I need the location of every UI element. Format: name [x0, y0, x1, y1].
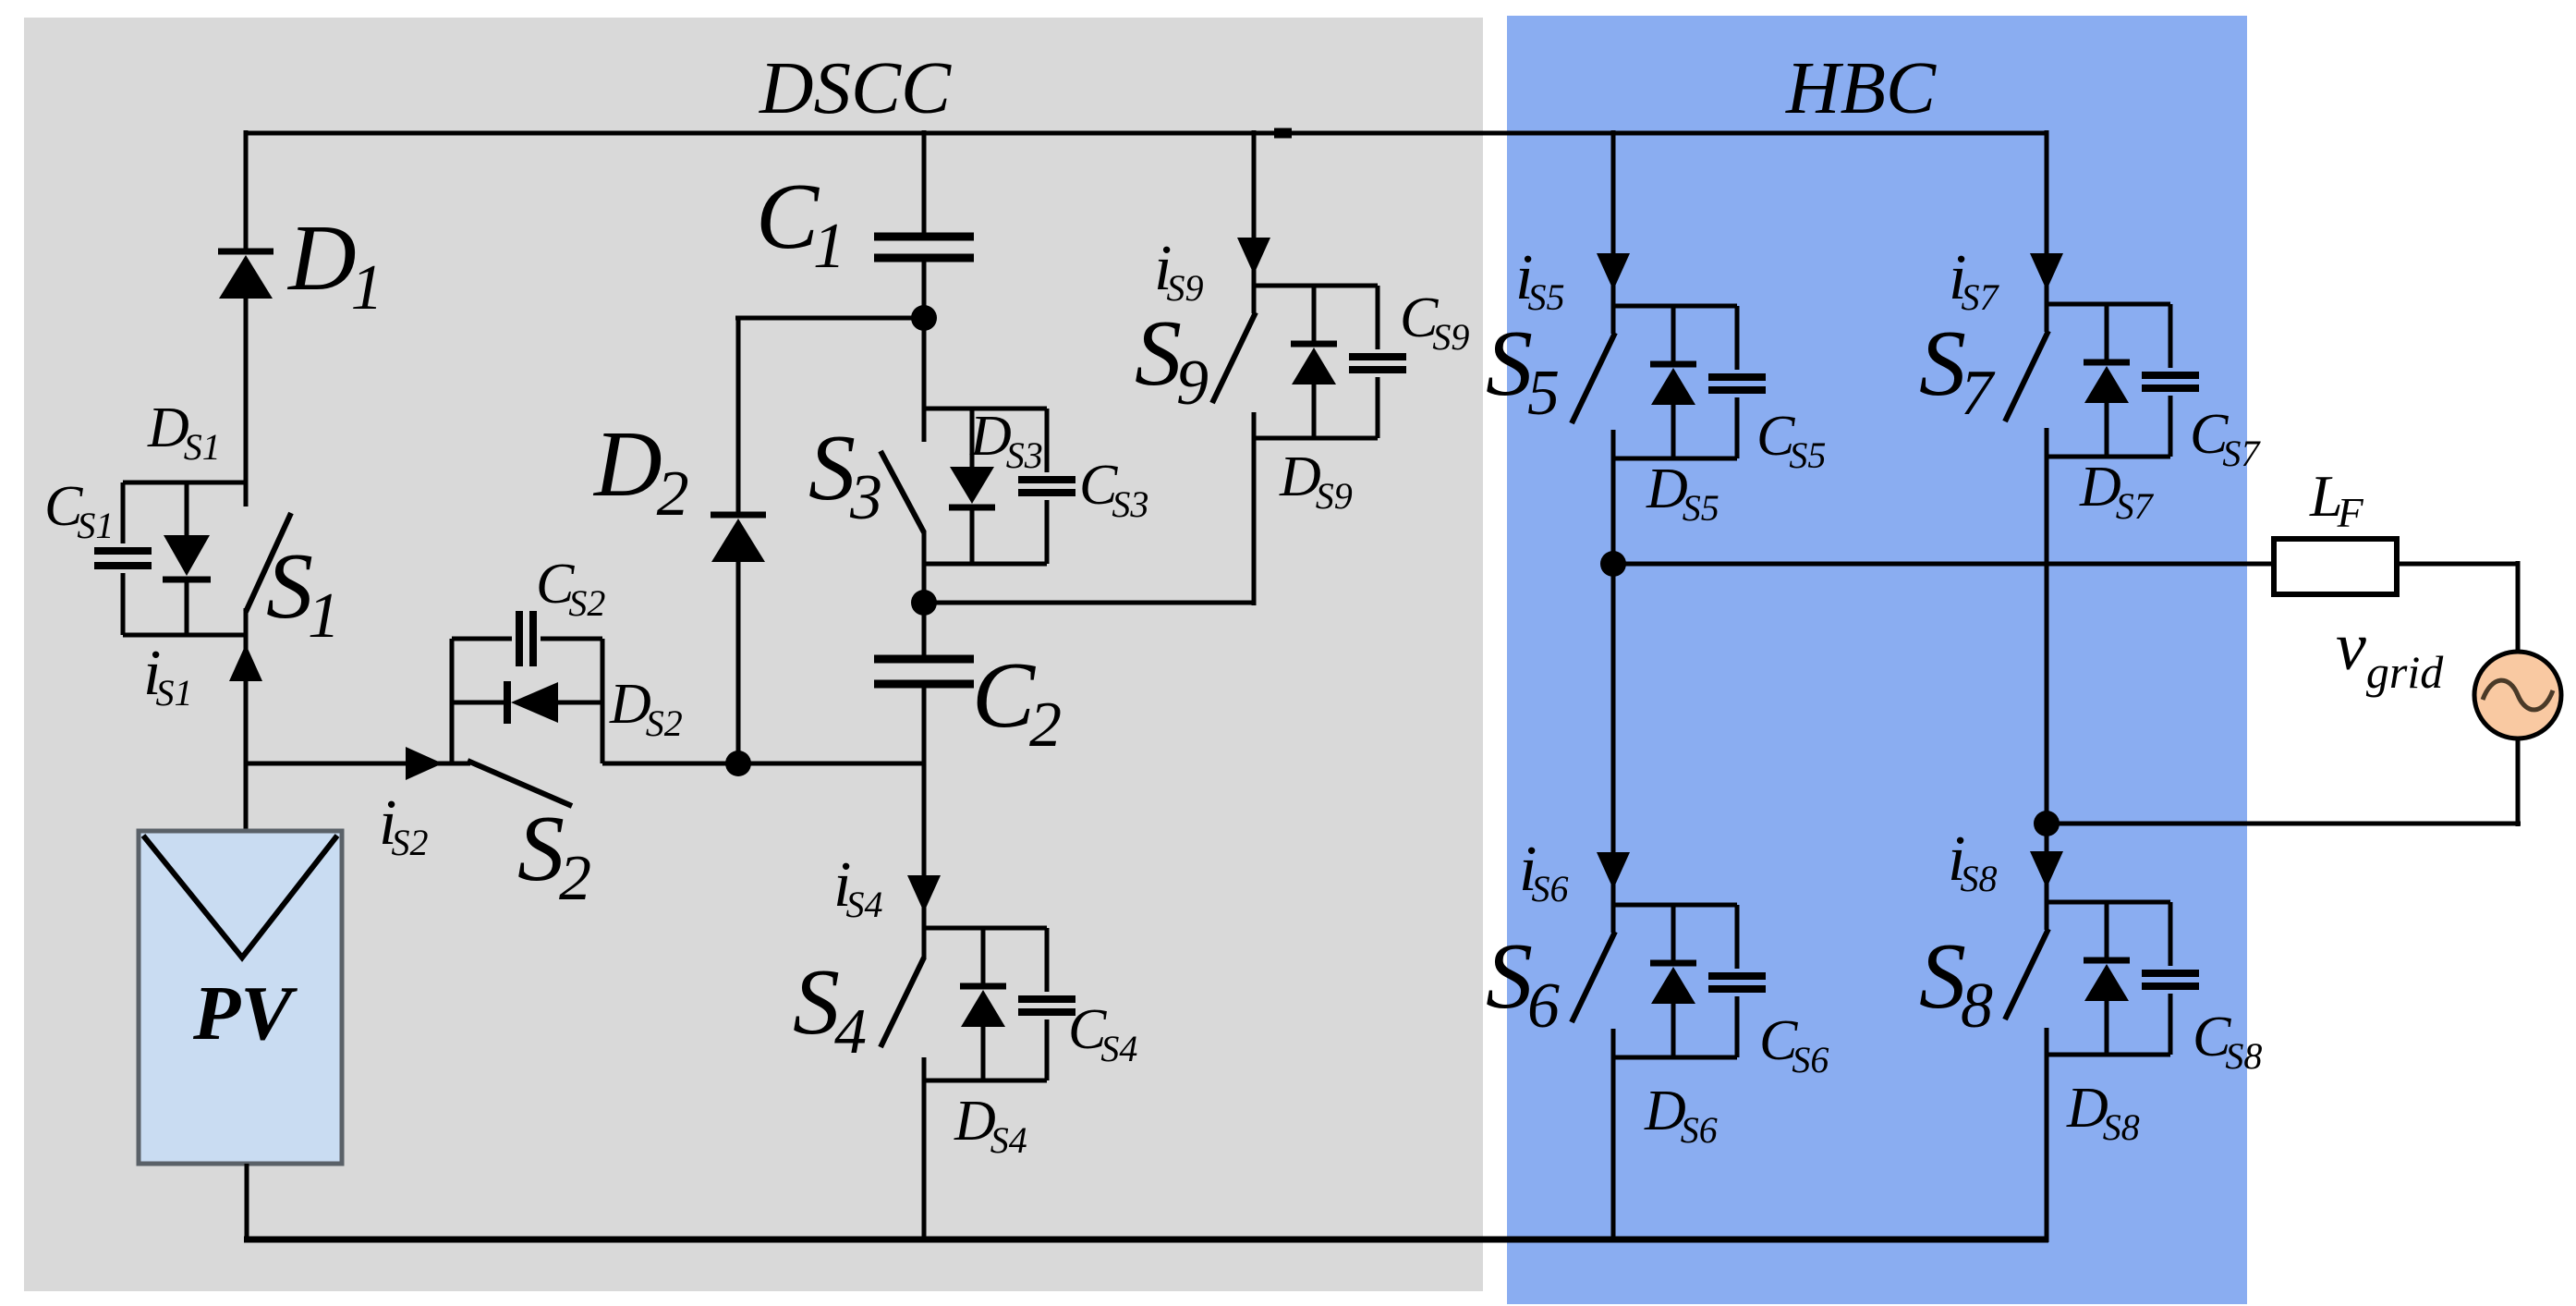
wire S7 upper	[2045, 130, 2049, 304]
label S6	[1486, 924, 1560, 1042]
diode DS1	[163, 482, 211, 635]
label iS5	[1515, 242, 1564, 318]
capacitor CS1	[94, 482, 152, 635]
label iS7	[1949, 242, 1999, 318]
capacitor CS2	[452, 611, 602, 666]
capacitor CS6	[1708, 905, 1766, 1057]
label DS8	[2066, 1077, 2140, 1148]
label vgrid	[2336, 609, 2444, 698]
label DS3	[969, 405, 1043, 476]
wire S6 upper	[1611, 564, 1616, 905]
wire C1 upper	[922, 130, 927, 237]
label DS2	[609, 673, 683, 744]
wire S4 lower	[922, 1057, 927, 1242]
wire C2 lower	[922, 684, 927, 959]
switch S9 blade	[1212, 312, 1256, 403]
label LF	[2309, 463, 2364, 536]
snubber box S7 rails	[2047, 304, 2170, 457]
label D1	[286, 206, 383, 323]
diode DS2	[452, 681, 602, 724]
switch S6 blade	[1572, 932, 1615, 1022]
PV source	[139, 831, 342, 1164]
current arrow iS1	[229, 644, 262, 681]
wire S1 to S2	[246, 762, 470, 766]
DSCC region background	[24, 18, 1483, 1291]
wire PV bottom	[245, 1164, 249, 1242]
wire S9 upper	[1252, 130, 1257, 286]
label HBC title	[1785, 46, 1937, 129]
current arrow iS7	[2030, 253, 2063, 290]
wire S3-S9 node link	[924, 601, 1254, 605]
label S4	[793, 950, 867, 1068]
label CS8	[2193, 1006, 2262, 1077]
wire S8 upper	[2045, 824, 2049, 902]
capacitor C1	[874, 237, 974, 258]
diode DS5	[1650, 306, 1696, 458]
label PV	[192, 970, 298, 1056]
wire D2 lower	[736, 562, 741, 763]
wire S6 upper contact stub	[1611, 905, 1616, 933]
label S2	[517, 797, 591, 914]
wire S1 lower	[244, 608, 249, 831]
snubber box S1 rails	[123, 482, 246, 635]
label DS5	[1646, 458, 1719, 529]
switch S4 blade	[881, 958, 924, 1047]
label C1	[756, 165, 845, 282]
current arrow iS6	[1597, 852, 1630, 889]
svg-text:PV: PV	[192, 970, 298, 1056]
wire S6 lower	[1611, 1029, 1616, 1242]
snubber box S2 verticals	[452, 639, 602, 763]
capacitor CS8	[2142, 902, 2199, 1055]
switch S5 blade	[1572, 333, 1615, 423]
label DSCC title	[759, 46, 952, 129]
label iS6	[1519, 834, 1568, 909]
capacitor C2	[874, 659, 974, 684]
current arrow iS5	[1597, 253, 1630, 290]
wire S5 upper	[1611, 130, 1616, 306]
diode D1	[218, 251, 273, 299]
label CS2	[536, 553, 605, 624]
label S1	[266, 534, 340, 652]
switch S7 blade	[2005, 331, 2048, 421]
label DS1	[147, 397, 221, 468]
diode DS6	[1650, 905, 1696, 1057]
snubber box S4 rails	[924, 928, 1047, 1080]
wire LF to grid corner	[2397, 561, 2520, 653]
voltage source vgrid	[2474, 652, 2561, 738]
wire D2 upper	[735, 318, 924, 515]
junction dot D2 node	[725, 751, 751, 776]
capacitor CS9	[1349, 286, 1406, 438]
label CS3	[1079, 454, 1148, 525]
capacitor CS7	[2142, 304, 2199, 457]
svg-text:DSCC: DSCC	[759, 46, 952, 129]
wire S2 to C2 branch	[602, 762, 924, 766]
wire D1 to S1	[244, 295, 249, 507]
junction dot S7-S8	[2034, 811, 2060, 836]
switch S3 blade	[881, 451, 924, 532]
label CS1	[44, 475, 114, 546]
snubber box S6 rails	[1613, 905, 1737, 1057]
label CS9	[1400, 287, 1469, 358]
current arrow iS4	[907, 875, 941, 912]
junction dot S5-S6	[1600, 551, 1626, 577]
label iS8	[1948, 824, 1997, 899]
label DS4	[954, 1090, 1027, 1161]
wire S8 lower	[2045, 1028, 2049, 1242]
label S8	[1919, 924, 1993, 1042]
wire S7 upper contact stub	[2045, 304, 2049, 332]
wire S8 upper contact stub	[2045, 902, 2049, 930]
current arrow iS8	[2030, 851, 2063, 888]
wire grid bottom	[2047, 738, 2521, 826]
switch S8 blade	[2005, 929, 2048, 1019]
junction dot C1 bottom	[911, 305, 937, 331]
label S3	[808, 416, 882, 533]
label iS2	[379, 787, 428, 863]
label CS4	[1068, 998, 1137, 1069]
label C2	[972, 643, 1062, 761]
wire top bus	[245, 131, 2047, 136]
snubber box S9 rails	[1254, 286, 1378, 438]
wire node to LF	[1613, 562, 2274, 567]
wire S3 lower	[922, 531, 927, 603]
svg-text:CS7: CS7	[2190, 403, 2261, 474]
capacitor CS4	[1018, 928, 1075, 1080]
switch S2 blade	[468, 761, 572, 806]
label DS6	[1644, 1080, 1718, 1151]
wire bottom bus	[244, 1237, 2048, 1243]
label iS4	[833, 849, 882, 925]
capacitor CS5	[1708, 306, 1766, 458]
wire S7 lower	[2045, 428, 2049, 824]
junction dot S3 bottom	[911, 590, 937, 616]
snubber box S8 rails	[2047, 902, 2170, 1055]
label S5	[1486, 311, 1560, 429]
svg-text:CS8: CS8	[2193, 1006, 2262, 1077]
label CS6	[1759, 1009, 1829, 1080]
label DS9	[1279, 446, 1353, 517]
label D2	[592, 412, 689, 530]
current arrow iS9	[1237, 238, 1270, 275]
inductor LF	[2274, 539, 2397, 594]
wire S9 upper contact stub	[1252, 286, 1257, 313]
diode DS4	[960, 928, 1006, 1080]
label iS9	[1154, 233, 1203, 309]
label S7	[1919, 311, 1996, 429]
capacitor CS3	[1018, 409, 1075, 564]
diode D2	[711, 515, 766, 562]
svg-text:HBC: HBC	[1785, 46, 1937, 129]
wire S3 node to C2	[922, 603, 927, 659]
snubber box S5 rails	[1613, 306, 1737, 458]
label CS5	[1756, 405, 1826, 476]
label CS7	[2190, 403, 2261, 474]
current arrow iS2	[406, 747, 443, 780]
diode DS8	[2084, 902, 2130, 1055]
HBC region background	[1507, 16, 2247, 1304]
label DS7	[2079, 456, 2155, 527]
wire C1 node to S3	[922, 318, 927, 442]
diode DS9	[1291, 286, 1337, 438]
wire left branch upper	[244, 130, 249, 251]
wire S5 lower	[1611, 430, 1616, 564]
wire C1 lower	[922, 258, 927, 318]
diode DS7	[2084, 304, 2130, 457]
svg-text:LF: LF	[2309, 463, 2364, 536]
diode DS3	[949, 409, 995, 564]
wire S9 lower	[1252, 412, 1257, 605]
label iS1	[143, 638, 192, 714]
label S9	[1135, 301, 1209, 419]
svg-text:vgrid: vgrid	[2336, 609, 2444, 698]
switch S1 blade	[246, 513, 291, 612]
wire S5 upper contact stub	[1611, 306, 1616, 334]
snubber box S3 rails	[924, 409, 1047, 564]
